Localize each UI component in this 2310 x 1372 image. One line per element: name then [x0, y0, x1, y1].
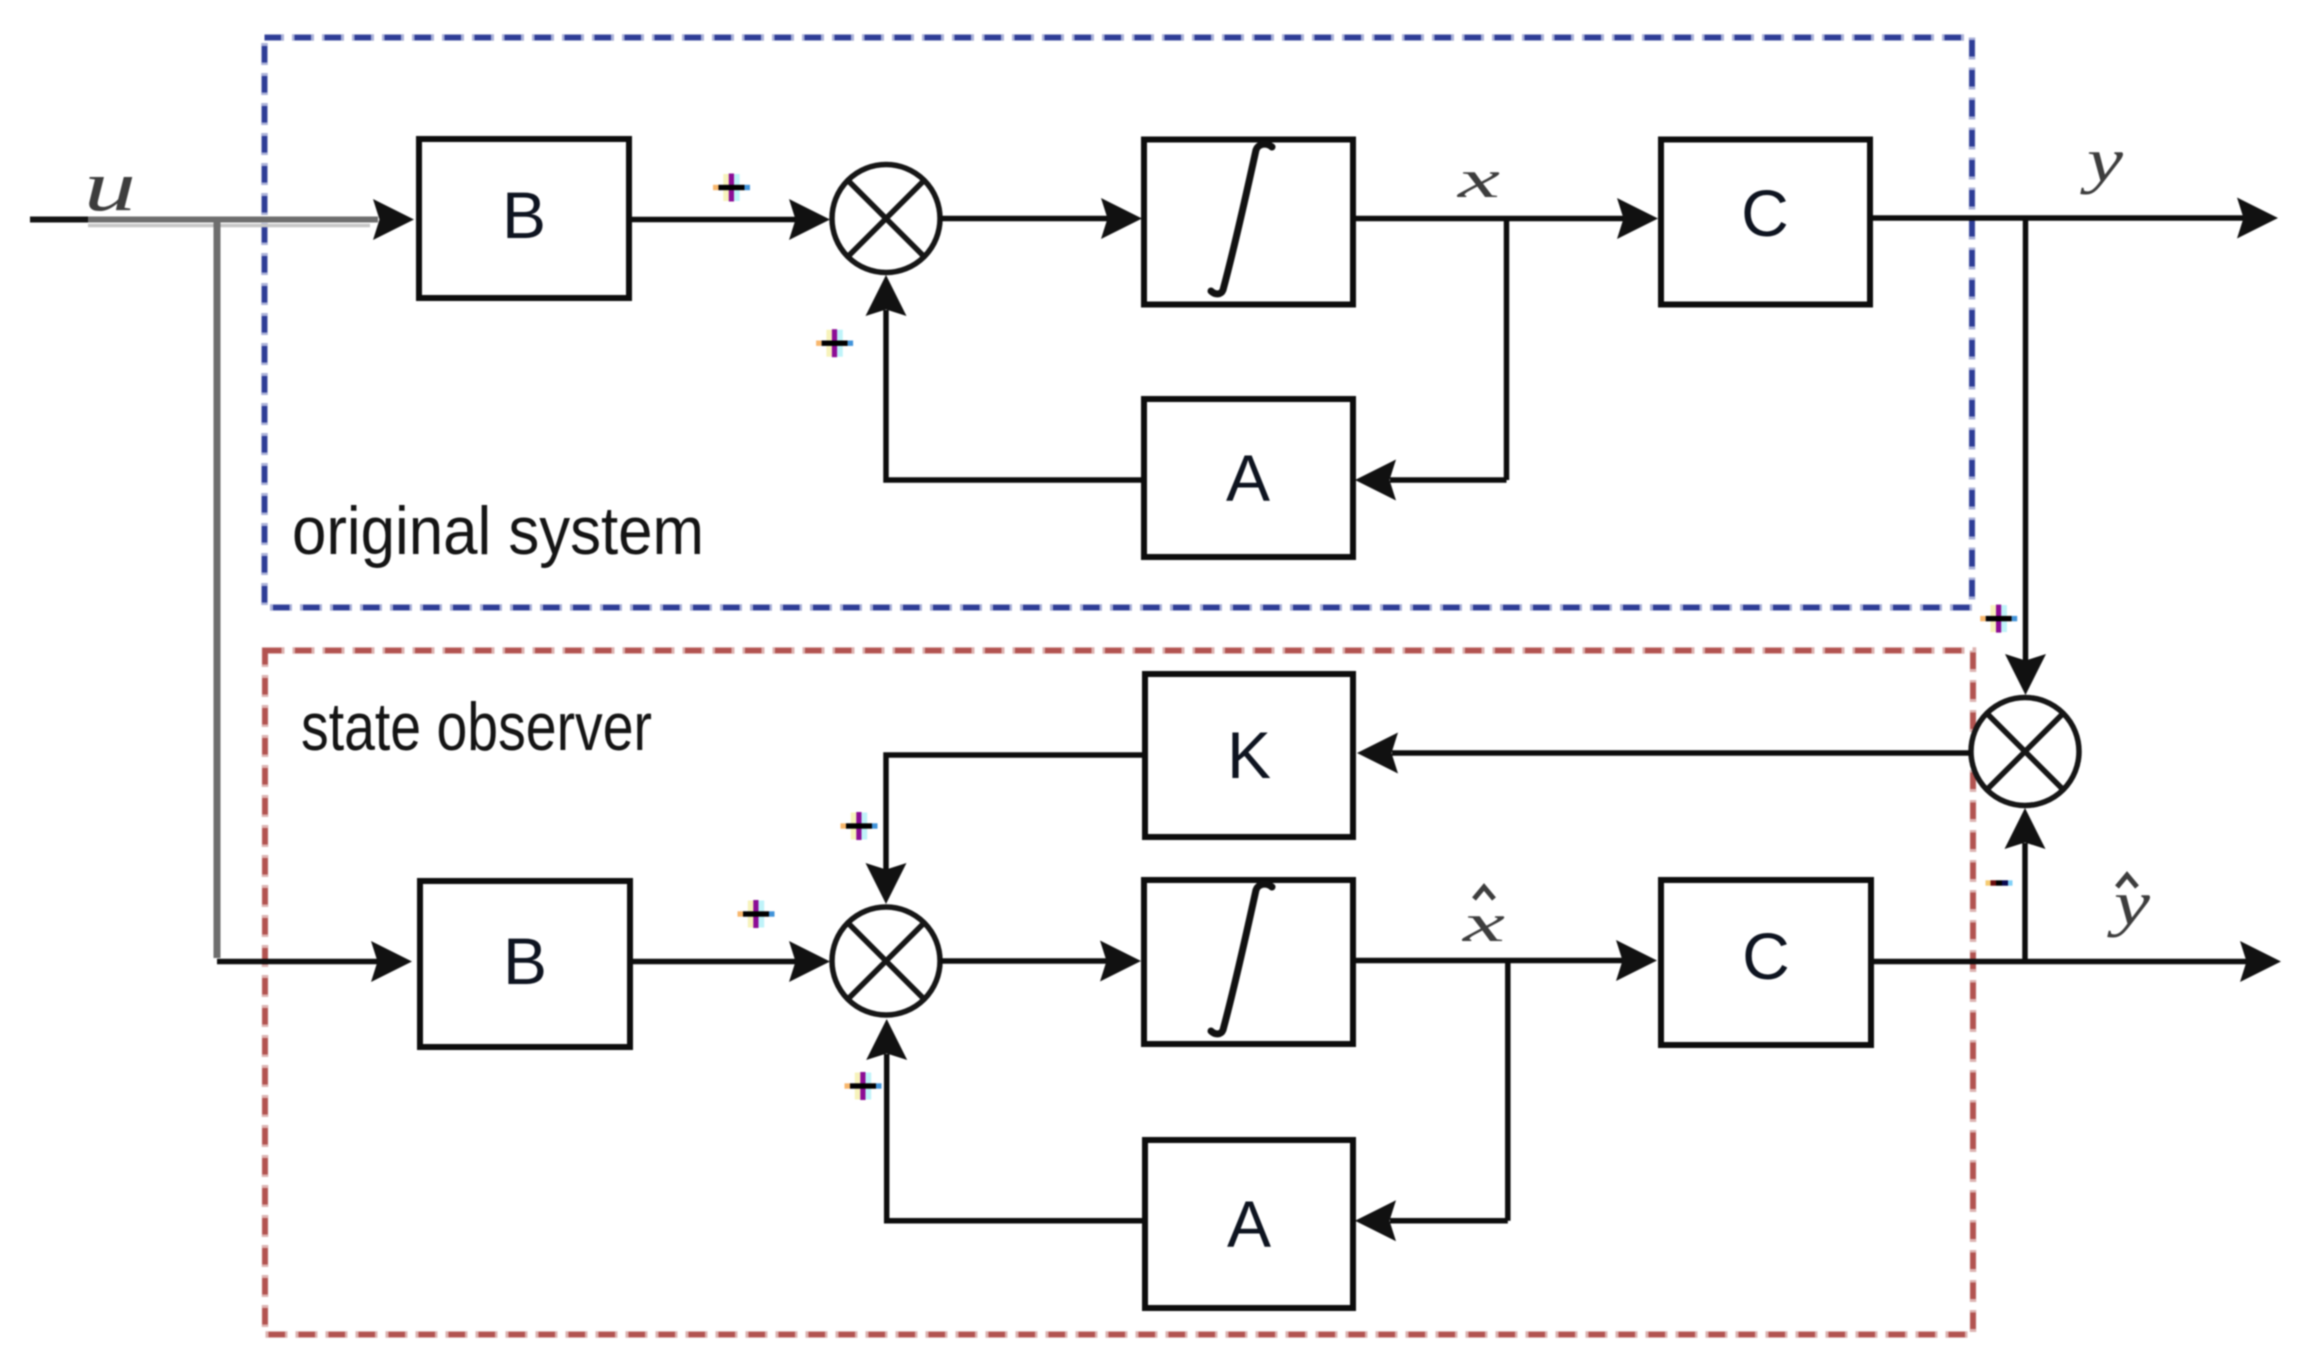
wire C2 to output yhat	[1871, 941, 2281, 982]
block B2	[420, 881, 630, 1047]
branch x junction vertical	[1504, 219, 1510, 481]
svg-text:K: K	[1227, 718, 1271, 792]
wire integrator1 to C1	[1353, 198, 1658, 239]
wire C1 to output y	[1870, 198, 2278, 239]
state observer boundary (red dashed box)	[265, 651, 1973, 1335]
wire integrator2 to C2	[1353, 940, 1657, 981]
svg-text:state observer: state observer	[301, 689, 652, 765]
wire yhat branch up to sumR (minus input)	[2005, 808, 2046, 962]
block C1	[1661, 140, 1870, 305]
wire sumR to K	[1357, 733, 1971, 774]
label state observer	[301, 689, 652, 765]
svg-text:u: u	[84, 146, 136, 226]
block B1	[419, 139, 629, 298]
svg-text:A: A	[1227, 1187, 1271, 1261]
node x label	[1456, 149, 1500, 209]
wire sum1 to integrator1	[940, 198, 1142, 239]
block A2	[1145, 1140, 1353, 1308]
plus sign sum2 left	[738, 900, 775, 928]
wire K to sum2	[866, 755, 1146, 904]
plus sign sum2 bottom	[845, 1072, 882, 1100]
wire sum2 to integrator2	[940, 941, 1141, 982]
summing junction sum1	[832, 165, 940, 273]
svg-text:x: x	[1461, 893, 1505, 953]
svg-text:x: x	[1456, 149, 1500, 209]
wire y branch down to sumR	[2005, 218, 2046, 695]
node xhat label	[1461, 887, 1505, 953]
block integrator1	[1144, 140, 1353, 305]
original system boundary (blue dashed box)	[265, 38, 1973, 608]
block integrator2	[1144, 880, 1353, 1044]
summing junction sum2	[832, 907, 940, 1015]
node y label	[2079, 127, 2123, 195]
wire u input (gray)	[30, 199, 414, 240]
plus sign sumR top	[1980, 605, 2017, 633]
svg-text:original system: original system	[292, 493, 704, 569]
wire A1 to sum1 (feedback)	[866, 275, 1145, 480]
wire B1 to sum1	[629, 199, 830, 240]
svg-text:C: C	[1741, 176, 1789, 250]
plus sign sum1 left	[713, 174, 750, 202]
svg-text:C: C	[1742, 919, 1790, 993]
label original system	[292, 493, 704, 569]
svg-text:B: B	[502, 178, 546, 252]
wire xhat branch to A2	[1355, 1200, 1508, 1241]
wire u to B2	[217, 941, 412, 982]
node yhat label	[2106, 870, 2150, 938]
wire u branch (gray vertical)	[214, 221, 221, 958]
node u label	[84, 146, 136, 226]
plus sign sum1 bottom	[816, 329, 853, 357]
block C2	[1661, 880, 1871, 1045]
branch xhat junction vertical	[1505, 961, 1511, 1221]
wire x branch to A1	[1355, 460, 1507, 501]
wire A2 to sum2 (feedback)	[866, 1019, 1145, 1221]
svg-text:A: A	[1226, 441, 1270, 515]
block K	[1145, 674, 1353, 837]
plus sign sum2 top	[841, 812, 878, 840]
block A1	[1144, 399, 1353, 557]
wire B2 to sum2	[630, 941, 830, 982]
svg-text:B: B	[503, 924, 547, 998]
minus sign sumR bottom	[1986, 880, 2013, 885]
summing junction sumR (right)	[1971, 698, 2079, 806]
